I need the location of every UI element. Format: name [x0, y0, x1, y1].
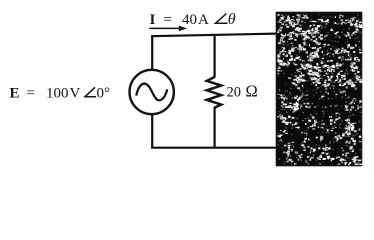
- wire: resistor top lead from top wire: [214, 35, 216, 78]
- resistor 20 ohm zigzag: [207, 77, 221, 108]
- svg-text:100: 100: [46, 86, 69, 102]
- svg-text:20: 20: [227, 85, 242, 101]
- voltage source E (AC sine symbol): [130, 70, 174, 114]
- angle symbol in label I: [216, 14, 228, 24]
- svg-text:V: V: [70, 86, 81, 102]
- svg-text:40: 40: [182, 12, 197, 28]
- svg-text:0°: 0°: [97, 86, 111, 102]
- wire: top horizontal from source branch to black box: [151, 34, 276, 37]
- current arrow I: [149, 26, 187, 32]
- svg-text:θ: θ: [228, 11, 236, 28]
- svg-text:I: I: [150, 12, 156, 28]
- wire: resistor bottom lead to bottom wire: [214, 107, 216, 149]
- wire: left vertical, top wire down to source top terminal: [151, 35, 153, 70]
- svg-text:A: A: [198, 12, 209, 28]
- wire: left vertical, source bottom terminal down to bottom wire: [151, 114, 153, 149]
- label I = 40 A angle theta: [150, 11, 236, 28]
- svg-text:=: =: [27, 86, 35, 102]
- svg-text:=: =: [164, 12, 172, 28]
- svg-text:Ω: Ω: [246, 82, 258, 101]
- angle symbol in label E: [85, 87, 96, 97]
- label E = 100 V angle 0deg: [10, 86, 111, 102]
- svg-text:E: E: [10, 86, 20, 102]
- black box load (stippled): [277, 13, 363, 166]
- wire: bottom horizontal return from source branch to black box: [151, 147, 276, 149]
